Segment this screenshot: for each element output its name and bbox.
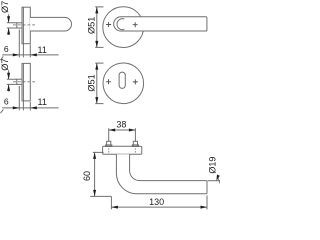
dim Ø7 row2 dimension line bbox=[8, 70, 10, 91]
dim 60 extension lines bbox=[90, 152, 111, 196]
arrow 130 right bbox=[201, 206, 208, 209]
dim Ø7 row1 dimension line bbox=[8, 14, 10, 35]
svg-text:Ø51: Ø51 bbox=[86, 17, 96, 34]
svg-text:Ø51: Ø51 bbox=[86, 74, 96, 91]
dim 6/11 row2 extension line V1 bbox=[18, 86, 20, 110]
lever front view outline bbox=[114, 17, 207, 31]
svg-text:6: 6 bbox=[4, 44, 9, 54]
keyhole oval bbox=[119, 72, 125, 88]
dim Ø7 row1 extension lines bbox=[7, 23, 17, 28]
arrow 6/11 row2 right bbox=[13, 106, 19, 109]
arrow 6/11 row1 left bbox=[30, 53, 37, 56]
rosette R1 front view circle bbox=[103, 7, 144, 48]
cross mark rosette R1 left screw bbox=[106, 22, 111, 27]
svg-text:60: 60 bbox=[82, 171, 92, 181]
arrow Ø51 row1 down bbox=[95, 41, 98, 48]
dim 38 dimension line bbox=[109, 129, 136, 131]
dim Ø51 row2 extension ticks bbox=[95, 63, 103, 104]
screw hole hidden line left bbox=[108, 148, 110, 153]
arrow Ø51 row1 up bbox=[95, 7, 98, 13]
arrow 6/11 row2 left bbox=[30, 106, 37, 109]
arrow 60 up bbox=[93, 152, 96, 159]
svg-text:6: 6 bbox=[4, 97, 9, 107]
dim Ø7 row2 extension lines bbox=[7, 79, 17, 84]
dim 6/11 row1 dimension line bbox=[2, 54, 58, 56]
dim Ø19 leader line bbox=[217, 176, 220, 184]
dim Ø19 extension line bbox=[208, 180, 221, 182]
rosette R1 side view body bbox=[22, 7, 30, 44]
lever neck side view stadium bbox=[30, 17, 71, 31]
svg-text:Ø7: Ø7 bbox=[0, 59, 10, 71]
dim 130 dimension line bbox=[111, 206, 207, 208]
dim Ø51 row1 extension ticks bbox=[95, 7, 103, 48]
arrow 60 down bbox=[93, 190, 96, 197]
arrow 130 left bbox=[111, 206, 118, 209]
dim 6/11 row1 extension line V1 bbox=[18, 30, 20, 58]
arrow Ø19 down bbox=[216, 175, 219, 181]
svg-text:130: 130 bbox=[149, 197, 164, 207]
dim 6/11 row2 left end tick bbox=[1, 109, 4, 113]
rosette R2 side view body bbox=[22, 63, 30, 101]
svg-text:38: 38 bbox=[116, 119, 126, 129]
dim 6/11 row2 extension line V2 bbox=[22, 64, 24, 111]
svg-text:Ø7: Ø7 bbox=[0, 1, 10, 13]
cross mark lever screw bbox=[133, 22, 138, 27]
rosette R2 side view spindle stub bbox=[17, 79, 22, 84]
svg-text:Ø19: Ø19 bbox=[207, 157, 217, 174]
dim 6/11 row2 extension line V3 bbox=[29, 102, 31, 110]
handle profile outline bbox=[116, 154, 207, 194]
arrow Ø7 row1 down bbox=[7, 16, 10, 23]
screw post right flange bbox=[132, 145, 138, 147]
arrow Ø7 row1 up bbox=[7, 28, 10, 35]
arrow 38 right-end bbox=[129, 129, 136, 132]
dim 130 extension lines bbox=[111, 196, 207, 210]
svg-text:11: 11 bbox=[38, 97, 47, 107]
arrow Ø51 row2 up bbox=[95, 63, 98, 70]
dim 6/11 row2 dimension line bbox=[2, 107, 58, 109]
arrow 38 left-end bbox=[109, 129, 116, 132]
screw hole hidden line right bbox=[134, 148, 136, 153]
rosette R2 front view circle bbox=[103, 63, 144, 104]
arrow 6/11 row1 right bbox=[13, 53, 19, 56]
arrow Ø7 row2 up bbox=[7, 84, 10, 91]
arrow Ø7 row2 down bbox=[7, 73, 10, 80]
arrow Ø51 row2 down bbox=[95, 97, 98, 104]
dim 60 dimension line bbox=[94, 152, 96, 196]
cross mark rosette R2 left screw bbox=[106, 79, 111, 84]
centerline row2 bbox=[13, 81, 35, 83]
rosette R1 side view spindle stub bbox=[17, 23, 22, 28]
dim 38 extension lines bbox=[109, 128, 136, 141]
dim 6/11 row1 left end tick bbox=[1, 56, 4, 60]
screw post right bbox=[133, 141, 137, 146]
dim Ø51 row1 dimension line bbox=[96, 7, 98, 48]
screw post left bbox=[107, 141, 111, 146]
dim 6/11 row1 extension line V3 bbox=[29, 45, 31, 58]
lever front view neck inner arc bbox=[117, 19, 124, 30]
svg-text:11: 11 bbox=[38, 45, 47, 55]
screw post left flange bbox=[106, 145, 112, 147]
cross mark rosette R2 right screw bbox=[133, 79, 138, 84]
handle profile mounting plate bbox=[103, 146, 142, 154]
centerline row1 bbox=[13, 24, 35, 26]
dim Ø51 row2 dimension line bbox=[96, 63, 98, 104]
dim 6/11 row1 extension line V2 bbox=[22, 7, 24, 57]
